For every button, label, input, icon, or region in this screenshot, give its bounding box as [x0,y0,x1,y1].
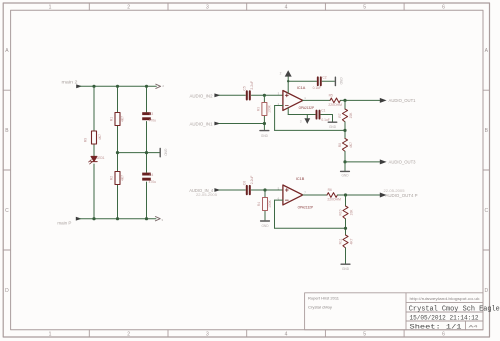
svg-text:C2: C2 [322,76,326,80]
wire cap branch vertical x146.5 [146,86,148,218]
wire top rail [80,85,156,87]
wire LED branch vertical x94 [93,86,95,218]
frame row labels right [484,48,488,294]
junction vgnd rail x117.5 [116,151,119,154]
svg-text:5: 5 [363,5,366,11]
wire R8 to out3 node [344,151,346,162]
wire divider A upper [344,100,346,109]
frame row ticks right [483,90,490,250]
wire divider B upper [345,195,347,206]
svg-text:470u: 470u [149,180,157,184]
svg-text:0.1uF: 0.1uF [313,86,321,90]
svg-text:IC1B: IC1B [296,177,305,181]
wire out3 node to gnd [344,162,346,171]
svg-text:3: 3 [206,5,209,11]
junction V+ branch [287,80,289,82]
title block author text [308,297,339,310]
wire feedback A horizontal [275,129,345,131]
svg-text:10K: 10K [349,112,353,119]
svg-text:100K: 100K [268,104,272,113]
svg-text:470u: 470u [149,119,157,123]
svg-text:GND: GND [164,149,168,157]
resistor R5 [330,98,340,103]
junction vgnd rail x146.5 [145,151,148,154]
wire AUDIO_IN1 [219,123,264,125]
op-amp U1B triangle [283,185,303,205]
net chevron 2 top rail [156,84,165,89]
wire feedback B vertical [274,200,276,228]
resistor R8 [342,139,347,152]
svg-text:15/05/2012 21:14:12: 15/05/2012 21:14:12 [410,314,479,321]
svg-text:C: C [484,208,488,214]
net flag AUDIO_IN_4 [189,188,220,197]
svg-text:http://ruisweyland.blogspot.co: http://ruisweyland.blogspot.co.uk [410,297,480,301]
net flag AUDIO_OUT4 [380,189,418,198]
resistor R7 [342,109,347,122]
net flag AUDIO_OUT1 [380,98,416,103]
svg-text:22-05-2005: 22-05-2005 [196,193,217,197]
resistor R3 [262,103,267,116]
svg-text:A4: A4 [469,323,479,328]
resistor R11 [343,235,348,248]
net chevron 3 bottom rail [155,217,163,222]
svg-text:2.2uF: 2.2uF [250,81,254,90]
wire R10 to fb node [345,219,347,235]
svg-text:R1: R1 [110,117,114,121]
svg-text:4K7: 4K7 [121,116,125,122]
svg-text:5: 5 [363,332,366,338]
svg-text:6: 6 [442,5,445,11]
capacitor C4 [142,173,151,181]
wire C2 to gnd [322,80,334,82]
wire R4 vertical [264,190,266,220]
svg-text:Rupert Hirst 2011: Rupert Hirst 2011 [308,297,339,301]
frame column ticks bottom [89,330,404,337]
svg-text:GND: GND [329,125,337,129]
svg-text:R5: R5 [329,94,333,98]
svg-text:Crystal cMoy: Crystal cMoy [308,306,332,310]
svg-text:4K7: 4K7 [98,134,102,140]
wire C1 to gnd [321,115,333,122]
svg-text:AUDIO_IN2: AUDIO_IN2 [190,93,214,98]
svg-text:2: 2 [127,332,130,338]
wire op-amp A V- stem [287,108,289,115]
svg-text:Sheet: 1/1: Sheet: 1/1 [410,323,462,330]
net flag AUDIO_IN1 [190,122,221,127]
wire V+ bypass branch [288,80,316,82]
svg-text:AUDIO_OUT1: AUDIO_OUT1 [389,98,417,103]
svg-text:R9: R9 [84,138,88,142]
resistor R4 [263,198,268,211]
frame column labels bottom [49,332,446,338]
ground symbol input B [261,221,270,228]
supply arrow net 3 [300,115,310,124]
resistor R6 [327,193,337,198]
svg-text:C6: C6 [242,181,246,185]
wire op-amp A -input stub [275,105,283,107]
svg-text:C1: C1 [321,109,325,113]
svg-text:OPA2132P: OPA2132P [299,106,315,110]
svg-text:C3: C3 [149,112,153,116]
wire op-amp A V+ stem [287,76,289,93]
svg-text:1: 1 [49,332,52,338]
svg-text:R8: R8 [338,143,342,147]
supply arrow net 2 [280,70,292,76]
junction bottom rail x117.5 [116,217,119,220]
junction feedback A [343,129,346,132]
svg-text:100K: 100K [268,199,272,208]
frame column labels top [49,5,446,11]
capacitor C3 [142,112,151,120]
svg-text:4: 4 [285,332,288,338]
junction AUDIO_IN1 node [263,122,266,125]
svg-text:AUDIO_OUT3: AUDIO_OUT3 [389,160,417,165]
svg-text:AUDIO_IN1: AUDIO_IN1 [190,122,214,127]
wire feedback B horizontal [275,227,346,229]
ground symbol C1 [328,122,336,129]
ground symbol rotated C2 [335,77,342,85]
svg-text:C: C [5,208,9,214]
wire R11 to gnd [345,248,347,264]
ground symbol rotated VGND tap [160,148,167,156]
net flag main P [57,217,81,226]
svg-text:R7: R7 [338,113,342,117]
LED LED1 [89,156,98,164]
svg-text:main P: main P [57,221,71,226]
junction feedback B [344,227,347,230]
wire divider branch vertical x117.5 [117,86,119,218]
svg-text:1: 1 [49,5,52,11]
svg-text:C4: C4 [149,173,153,177]
wire V- bypass branch [288,114,315,116]
svg-text:AUDIO_OUT4 P: AUDIO_OUT4 P [386,193,418,198]
capacitor C2 [318,77,321,85]
svg-text:220OHM: 220OHM [328,103,342,107]
svg-text:R11: R11 [339,238,343,244]
svg-text:R3: R3 [257,107,261,111]
net flag main 2 [62,79,83,88]
svg-text:4K7: 4K7 [349,238,353,244]
svg-text:D: D [5,288,9,294]
svg-text:3: 3 [300,119,302,123]
wire op-amp B output [303,194,327,196]
frame row ticks left [3,90,10,250]
svg-text:4K7: 4K7 [349,142,353,148]
wire AUDIO_IN2 to cap [219,94,245,96]
wire bottom rail [80,218,156,220]
svg-text:10K: 10K [349,209,353,216]
ground symbol divider B [341,264,350,271]
wire feedback A vertical [274,106,276,131]
svg-text:R6: R6 [328,188,332,192]
wire cap to op-amp A +input [251,94,283,96]
svg-text:3: 3 [206,332,209,338]
net flag AUDIO_OUT3 [380,159,416,164]
svg-text:R10: R10 [339,209,343,215]
svg-text:GND: GND [339,77,343,85]
resistor R9 [92,131,97,144]
svg-text:4K7: 4K7 [121,175,125,181]
capacitor C6 [247,186,250,194]
wire virtual ground rail [118,152,160,154]
wire cap to op-amp B +input [251,189,283,191]
svg-text:C5: C5 [242,86,246,90]
junction AUDIO_IN2 node [263,94,266,97]
resistor R2 [115,172,120,185]
junction out B divider [344,193,347,196]
wire out3 [345,161,380,163]
junction out A divider [343,99,346,102]
svg-text:4: 4 [285,5,288,11]
svg-text:0.1uF: 0.1uF [321,118,329,122]
op-amp U1A triangle [283,91,303,111]
svg-text:IC1A: IC1A [297,86,306,90]
frame row labels left [5,48,9,294]
junction top rail x94 [92,85,95,88]
wire AUDIO_IN_4 to cap [219,189,245,191]
svg-text:main 2: main 2 [62,79,79,84]
junction top rail x146.5 [145,85,148,88]
svg-text:220OHM: 220OHM [327,198,341,202]
resistor R10 [343,206,348,219]
wire R6 to out flag [337,194,379,196]
junction AUDIO_IN_4 node [263,188,266,191]
wire R7 to fb node [344,122,346,139]
wire op-amp A output [303,99,330,101]
svg-text:GND: GND [261,224,269,228]
svg-text:2: 2 [127,5,130,11]
svg-text:GND: GND [342,267,350,271]
svg-text:2: 2 [280,71,282,75]
capacitor C5 [247,91,250,99]
svg-text:GND: GND [341,173,349,177]
svg-text:2.2uF: 2.2uF [250,176,254,185]
ground symbol divider A [341,171,350,177]
title block frame [305,293,483,330]
svg-text:6: 6 [442,332,445,338]
frame column ticks top [89,3,404,10]
wire R5 to out flag [340,99,379,101]
svg-text:Crystal Cmoy Sch Eagle: Crystal Cmoy Sch Eagle [409,305,500,313]
svg-text:OPA2132P: OPA2132P [298,206,314,210]
capacitor C1 [317,111,320,119]
resistor R1 [115,113,120,126]
ground symbol input A [260,131,269,138]
junction out3 node [343,160,346,163]
junction bottom rail x94 [92,217,95,220]
wire op-amp B -input stub [275,199,283,201]
junction bottom rail x146.5 [145,217,148,220]
svg-text:GND: GND [261,134,269,138]
junction top rail x117.5 [116,85,119,88]
svg-text:R4: R4 [257,202,261,206]
net flag AUDIO_IN2 [190,93,221,98]
svg-text:D: D [484,288,488,294]
svg-text:R2: R2 [110,176,114,180]
svg-text:LED1: LED1 [97,156,105,160]
wire R3 vertical [263,95,265,129]
